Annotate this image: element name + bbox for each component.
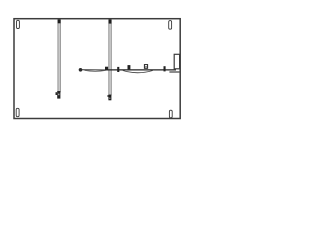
fitting tick 2 — [164, 66, 166, 71]
stud A body — [58, 20, 61, 93]
stud B cap nub — [107, 95, 110, 97]
stud A bracket notch — [58, 94, 59, 96]
stud B top cap — [109, 19, 112, 23]
wire lower step — [169, 71, 179, 73]
hinge bottom-left — [16, 108, 19, 116]
stud A bracket nub — [56, 92, 58, 95]
hinge bottom-right — [169, 110, 172, 118]
hinge top-left — [17, 20, 20, 28]
wire sag right — [123, 71, 153, 73]
clamp at stud B — [105, 67, 108, 70]
wire main run left — [82, 69, 107, 71]
fitting block open pin — [145, 66, 146, 67]
hinge top-right — [169, 21, 172, 30]
latch keeper box — [174, 54, 179, 69]
wire main run right — [107, 69, 177, 71]
stud B bottom cap — [108, 95, 111, 101]
stud B body — [109, 20, 112, 96]
rod end ball — [79, 68, 83, 72]
wire sag left — [85, 70, 107, 71]
fitting block open — [144, 65, 147, 69]
stud A bottom bracket — [57, 91, 60, 99]
stud A top cap — [58, 19, 61, 23]
wall frame outline — [14, 19, 180, 119]
fitting tick 1 — [117, 67, 119, 72]
stud B cap notch — [109, 98, 110, 99]
fitting block dark — [128, 65, 131, 69]
